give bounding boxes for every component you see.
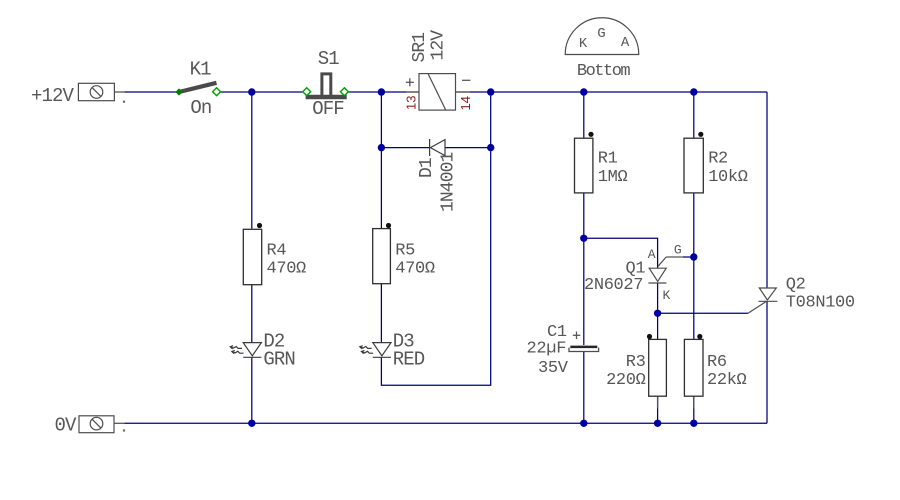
wire top rail segment 4 <box>470 91 767 93</box>
capacitor C1 <box>569 347 599 352</box>
svg-text:1MΩ: 1MΩ <box>598 168 628 187</box>
svg-text:K1: K1 <box>190 59 212 81</box>
resistor R1 <box>575 132 594 193</box>
LED D3 <box>360 343 391 358</box>
wire SR1 right pin stub <box>456 91 471 93</box>
wire Q1 cathode to R3 <box>657 283 659 339</box>
relay SR1 plus mark <box>406 78 414 86</box>
LED D2 <box>230 343 261 358</box>
junction Q1 gate <box>690 253 697 260</box>
svg-text:A: A <box>621 35 630 51</box>
terminal 0V origin dot <box>123 429 125 431</box>
wire D1 cathode lead <box>445 147 491 149</box>
junction D1 cathode <box>487 144 494 151</box>
wire terminal to K1 <box>124 91 177 93</box>
junction bottom rail at R6 <box>690 420 697 427</box>
wire gate to junction <box>683 256 694 258</box>
wire D1 anode lead <box>381 147 429 149</box>
svg-text:2N6027: 2N6027 <box>584 276 643 295</box>
thyristor Q1 <box>648 257 666 283</box>
svg-text:+12V: +12V <box>31 85 75 107</box>
resistor R6 <box>684 334 703 396</box>
svg-text:GRN: GRN <box>263 348 295 370</box>
thyristor Q2 <box>748 288 777 313</box>
svg-text:12V: 12V <box>429 30 449 61</box>
svg-text:R5: R5 <box>395 242 415 261</box>
wire Q1 anode branch <box>584 238 658 268</box>
svg-text:Bottom: Bottom <box>577 62 631 81</box>
wire D3 to loop corner <box>381 92 490 385</box>
svg-text:D1: D1 <box>417 158 437 178</box>
wire C1 to bottom rail <box>583 352 585 423</box>
junction bottom rail at R3 <box>654 420 661 427</box>
wire top rail segment 2 <box>220 91 306 93</box>
wire D2 to bottom rail <box>251 357 253 423</box>
svg-text:K: K <box>663 288 671 303</box>
svg-text:S1: S1 <box>318 48 340 70</box>
svg-text:Q2: Q2 <box>786 276 806 295</box>
svg-text:R6: R6 <box>707 353 727 372</box>
svg-text:22kΩ: 22kΩ <box>707 371 747 390</box>
terminal +12V <box>78 83 114 100</box>
svg-text:T08N100: T08N100 <box>786 294 855 313</box>
wire Q2 cathode column <box>766 301 768 423</box>
terminal +12V origin dot <box>123 101 125 103</box>
svg-text:10kΩ: 10kΩ <box>708 168 748 187</box>
wire R1 column upper <box>583 92 585 138</box>
resistor R4 <box>243 223 262 285</box>
wire R3 to bottom rail <box>657 396 659 423</box>
svg-text:A: A <box>648 247 656 262</box>
resistor R2 <box>684 132 703 193</box>
resistor R3 <box>647 334 667 396</box>
relay coil SR1 <box>419 74 456 111</box>
wire bottom rail <box>115 422 125 424</box>
svg-text:0V: 0V <box>55 415 78 437</box>
wire R2 column upper <box>693 92 695 138</box>
relay SR1 minus mark <box>462 79 470 81</box>
svg-text:470Ω: 470Ω <box>395 259 435 278</box>
wire SR1 left pin stub <box>406 91 419 93</box>
wire R4 to D2 <box>251 284 253 343</box>
svg-text:14: 14 <box>458 96 473 110</box>
pushbutton S1 <box>303 74 349 97</box>
capacitor C1 plus mark <box>573 332 581 340</box>
diode D1 <box>430 139 445 156</box>
wire R5 column upper <box>380 92 382 229</box>
wire bottom rail <box>124 422 767 424</box>
terminal 0V <box>79 416 114 433</box>
wire top rail segment 3 <box>346 91 407 93</box>
svg-text:470Ω: 470Ω <box>267 259 307 278</box>
junction top rail at R1 column <box>580 88 587 95</box>
junction top rail at R5 column <box>378 88 385 95</box>
switch K1 <box>175 83 220 96</box>
svg-text:1N4001: 1N4001 <box>439 152 459 212</box>
svg-text:SR1: SR1 <box>410 33 430 63</box>
svg-text:OFF: OFF <box>312 98 344 120</box>
svg-text:R2: R2 <box>708 150 728 169</box>
wire K node to Q2 gate <box>658 312 748 314</box>
wire R1 to C1 <box>583 193 585 345</box>
junction D1 anode <box>378 144 385 151</box>
wire top rail segment 1 <box>115 91 125 93</box>
wire Q2 anode column <box>766 92 768 288</box>
svg-text:K: K <box>579 36 588 52</box>
wire R6 bottom pin stub <box>693 396 695 408</box>
junction node K <box>654 310 661 317</box>
svg-text:R1: R1 <box>598 150 618 169</box>
wire R3 bottom pin stub <box>657 396 659 408</box>
svg-text:G: G <box>674 242 682 257</box>
svg-text:G: G <box>597 26 605 42</box>
wire Q1 gate to R2 column <box>666 256 683 258</box>
wire R2 to R6 <box>693 193 695 340</box>
wire R6 to bottom rail <box>693 396 695 423</box>
svg-text:220Ω: 220Ω <box>606 371 646 390</box>
junction top rail at R2 column <box>690 88 697 95</box>
svg-text:22µF: 22µF <box>527 339 567 358</box>
junction Q1 anode branch <box>580 235 587 242</box>
package outline bottom view <box>565 18 639 55</box>
junction top rail at loop <box>487 88 494 95</box>
junction top rail at R4 column <box>248 88 255 95</box>
svg-text:R4: R4 <box>267 242 287 261</box>
wire R5 to D3 <box>380 284 382 343</box>
svg-text:13: 13 <box>404 96 419 110</box>
svg-text:35V: 35V <box>538 359 569 378</box>
junction bottom rail at D2 column <box>248 420 255 427</box>
svg-text:On: On <box>190 97 211 119</box>
resistor R5 <box>373 223 391 284</box>
junction bottom rail at C1 <box>580 420 587 427</box>
wire R4 column upper <box>251 92 253 229</box>
svg-text:RED: RED <box>393 348 425 370</box>
svg-text:R3: R3 <box>626 353 646 372</box>
